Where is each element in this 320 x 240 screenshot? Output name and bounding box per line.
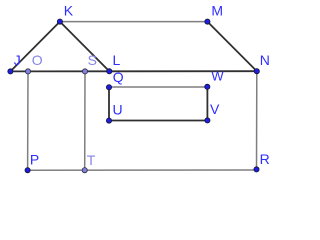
svg-text:V: V [210,101,220,117]
svg-text:R: R [260,151,270,167]
svg-text:S: S [88,52,97,68]
svg-text:Q: Q [113,69,124,85]
svg-text:N: N [260,52,270,68]
svg-text:M: M [211,3,223,19]
svg-text:J: J [14,52,21,68]
svg-text:T: T [87,152,96,168]
svg-text:W: W [211,69,224,84]
svg-text:L: L [113,52,121,68]
svg-text:K: K [64,2,74,18]
svg-text:P: P [30,152,39,168]
svg-text:O: O [32,52,43,68]
svg-text:U: U [113,101,123,117]
